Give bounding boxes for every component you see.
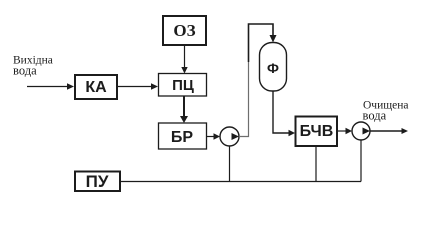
svg-text:Ф: Ф [267,60,279,76]
wire: БЧВ down to bus [315,146,317,182]
mixer circle 2 [352,122,370,140]
svg-text:вода: вода [13,64,37,78]
svg-text:КА: КА [85,79,107,96]
box БЧВ [296,117,338,147]
svg-text:ПЦ: ПЦ [172,77,194,94]
box ПУ [75,172,120,192]
svg-text:ПУ: ПУ [86,172,109,191]
wire: mixer 1 down to bus [229,146,231,182]
svg-text:БР: БР [171,129,194,146]
wire: mixer 2 down to bus [360,140,362,182]
label: Очищена вода [363,100,409,123]
box ОЗ [163,16,206,45]
box БР [159,123,207,149]
svg-text:вода: вода [363,109,387,123]
wire: inlet arrow into КА [27,83,74,89]
wire: ОЗ down to ПЦ [181,46,187,74]
wire: Ф down and right into БЧВ [273,91,289,133]
label: Вихідна вода [13,55,53,78]
svg-text:ОЗ: ОЗ [173,21,195,40]
mixer circle 1 [220,127,239,146]
wire: outlet arrow from mixer 2 [370,128,408,134]
box КА [75,75,117,99]
wire: mixer 1 up and over to Ф [239,24,273,137]
box ПЦ [159,74,207,97]
wire: ПУ bottom bus [120,181,361,183]
wire: ПЦ down to БР [180,96,188,123]
wire: БЧВ to mixer 2 [337,128,352,134]
filter Ф (capsule) [260,43,287,92]
wire: КА to ПЦ [117,83,158,89]
wire: БР to mixer 1 [207,133,221,139]
svg-text:БЧВ: БЧВ [300,123,334,140]
